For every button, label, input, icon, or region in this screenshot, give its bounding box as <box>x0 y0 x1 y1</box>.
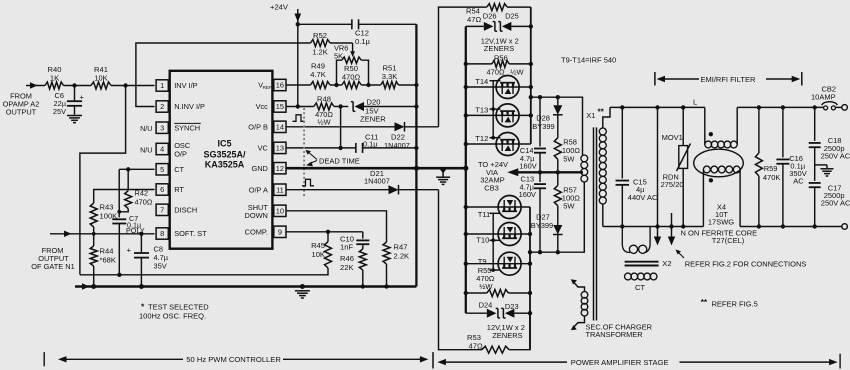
svg-text:MOV1: MOV1 <box>662 133 683 142</box>
varistor MOV1 <box>661 107 691 228</box>
svg-text:C12: C12 <box>355 29 369 38</box>
svg-text:11: 11 <box>276 185 284 194</box>
svg-text:10: 10 <box>276 207 284 216</box>
svg-text:4.7K: 4.7K <box>310 70 326 79</box>
label X2 <box>662 259 671 268</box>
resistor R58 <box>554 115 580 173</box>
pulse glyph O/P A <box>302 179 314 186</box>
svg-text:470K: 470K <box>763 173 781 182</box>
svg-text:POLY: POLY <box>126 226 145 235</box>
svg-text:SOFT. ST: SOFT. ST <box>174 229 207 238</box>
svg-text:R45: R45 <box>311 241 325 250</box>
resistor R40 <box>45 65 64 89</box>
IC IC5 SG3525A/KA3525A body <box>170 71 273 249</box>
capacitor C6 <box>53 86 85 117</box>
resistor R45 <box>311 232 331 268</box>
diode D27 <box>531 206 563 255</box>
capacitor C10 <box>340 235 369 252</box>
wire drain bus top <box>529 7 533 144</box>
svg-text:15: 15 <box>276 102 284 111</box>
svg-text:+: + <box>80 93 85 102</box>
svg-text:R59: R59 <box>764 164 778 173</box>
resistor R46 <box>340 244 366 288</box>
svg-text:TEST SELECTED: TEST SELECTED <box>148 303 209 312</box>
zener D26 <box>466 11 497 31</box>
potentiometer VR6 <box>334 44 369 86</box>
svg-text:100Hz OSC. FREQ.: 100Hz OSC. FREQ. <box>139 312 206 321</box>
pin 15 (Vcc) <box>256 101 286 112</box>
transistor T9 <box>466 252 530 275</box>
label N/U pin4 <box>140 145 152 154</box>
label 50 Hz PWM CONTROLLER <box>44 352 428 366</box>
pin 4 (OSC O/P) <box>156 141 191 158</box>
svg-text:N.INV I/P: N.INV I/P <box>174 102 205 111</box>
label DEAD TIME with arrows <box>306 150 360 167</box>
svg-text:½W: ½W <box>510 67 524 76</box>
svg-text:KA3525A: KA3525A <box>205 160 245 170</box>
wire drain top to primary <box>531 95 583 155</box>
winding SEC OF CHARGER TRANSFORMER <box>571 279 652 339</box>
label T9-T14=IRF 540 <box>561 55 616 64</box>
resistor R56 <box>466 53 533 76</box>
svg-text:DEAD TIME: DEAD TIME <box>319 157 360 166</box>
pin 12 (GND) <box>251 163 286 174</box>
svg-text:O/P B: O/P B <box>248 123 268 132</box>
svg-text:N/U: N/U <box>140 145 152 154</box>
svg-text:47Ω: 47Ω <box>467 15 481 24</box>
svg-text:T11: T11 <box>478 210 491 219</box>
resistor R48 <box>314 95 334 127</box>
svg-text:L: L <box>693 98 697 107</box>
svg-text:REFER FIG.5: REFER FIG.5 <box>712 300 758 309</box>
label test selected note <box>139 302 209 321</box>
svg-text:BY399: BY399 <box>532 122 555 131</box>
svg-text:T12: T12 <box>475 134 488 143</box>
wire neutral rail <box>603 224 842 228</box>
svg-text:9: 9 <box>278 228 282 237</box>
wire source bus left (thick) <box>463 26 468 313</box>
wire R53 to lower gate bus <box>509 313 530 350</box>
svg-text:10AMP: 10AMP <box>811 93 836 102</box>
wire gate drive B up <box>439 7 487 127</box>
svg-text:OUTPUT: OUTPUT <box>6 108 37 117</box>
pulse glyph O/P B <box>293 115 305 122</box>
diode D28 <box>532 97 562 131</box>
capacitor C11 <box>356 132 379 153</box>
svg-text:100K: 100K <box>100 212 118 221</box>
svg-text:35V: 35V <box>154 262 167 271</box>
svg-text:R43: R43 <box>100 203 114 212</box>
transformer X1 secondary winding <box>599 128 606 204</box>
svg-text:3: 3 <box>160 123 164 132</box>
zener D23 <box>501 302 530 318</box>
wire D20 junction down to C11 row <box>338 107 342 151</box>
svg-text:O/P A: O/P A <box>249 185 268 194</box>
svg-text:25V: 25V <box>53 107 66 116</box>
resistor R51 <box>381 64 399 89</box>
svg-text:12: 12 <box>276 164 284 173</box>
pin 11 (O/P A) <box>249 184 286 195</box>
svg-text:13: 13 <box>276 144 284 153</box>
pin 8 (SOFT. ST) <box>156 228 207 239</box>
svg-text:470Ω: 470Ω <box>135 198 153 207</box>
transformer X1 primary winding <box>581 155 588 182</box>
wire <box>384 264 388 289</box>
svg-text:R47: R47 <box>394 243 408 252</box>
svg-text:17SWG: 17SWG <box>708 218 734 227</box>
svg-text:160V: 160V <box>519 190 536 199</box>
svg-text:4: 4 <box>160 145 164 154</box>
svg-text:DOWN: DOWN <box>244 211 267 220</box>
svg-text:X1: X1 <box>586 111 595 120</box>
svg-text:440V AC: 440V AC <box>628 193 658 202</box>
svg-text:R44: R44 <box>100 247 114 256</box>
node +24V supply <box>270 3 301 109</box>
svg-text:CT: CT <box>174 165 184 174</box>
resistor R42 <box>117 169 152 213</box>
label N ON FERRITE CORE <box>681 228 758 245</box>
svg-text:**: ** <box>701 298 708 307</box>
svg-text:3.3K: 3.3K <box>382 72 398 81</box>
svg-text:5W: 5W <box>563 155 575 164</box>
svg-text:COMP.: COMP. <box>245 228 268 237</box>
wire <box>93 227 95 246</box>
wire pin11 row <box>286 189 439 191</box>
svg-text:T13: T13 <box>475 106 488 115</box>
wire gate bus top <box>491 81 495 140</box>
dead time dotted line <box>303 108 305 196</box>
wire gate drive A down to R53 <box>439 190 482 350</box>
wire pin9 row <box>286 230 363 239</box>
wire pin2 feedback to R52 <box>136 43 311 107</box>
wire GND row (thick) <box>286 166 466 171</box>
wire pin15 row <box>286 104 419 108</box>
svg-text:BY399: BY399 <box>531 221 554 230</box>
pin 5 (CT) <box>156 164 184 175</box>
svg-text:R46: R46 <box>340 254 354 263</box>
svg-text:1N4007: 1N4007 <box>364 177 390 186</box>
svg-text:0.1µ: 0.1µ <box>363 140 378 149</box>
svg-text:250V AC: 250V AC <box>821 151 850 160</box>
capacitor C8 <box>127 234 169 287</box>
svg-text:D23: D23 <box>505 302 519 311</box>
svg-text:50 Hz PWM CONTROLLER: 50 Hz PWM CONTROLLER <box>186 355 281 364</box>
svg-text:ZENERS: ZENERS <box>492 331 522 340</box>
svg-text:470Ω: 470Ω <box>342 73 361 82</box>
wire X2 line 2 <box>668 213 675 246</box>
svg-text:CT: CT <box>635 283 645 292</box>
svg-text:5K: 5K <box>334 52 343 61</box>
terminal output neutral <box>842 224 848 230</box>
svg-text:D24: D24 <box>479 301 493 310</box>
svg-text:SYNCH: SYNCH <box>174 123 200 132</box>
wire secondary bottom <box>602 204 604 227</box>
label REFER FIG.2 <box>676 250 807 269</box>
svg-text:275/20: 275/20 <box>661 180 684 189</box>
svg-text:ZENER: ZENER <box>360 114 386 123</box>
pin 9 (COMP.) <box>245 226 286 237</box>
wire pin10 row <box>286 211 387 242</box>
pin 10 (SHUT DOWN) <box>244 203 286 220</box>
wire live rail top <box>610 98 705 110</box>
wire drain bottom to primary <box>530 182 584 252</box>
svg-text:T14: T14 <box>475 77 488 86</box>
svg-text:IC5: IC5 <box>217 138 231 148</box>
label N/U pin3 <box>140 124 152 133</box>
svg-text:0.1µ: 0.1µ <box>355 37 371 46</box>
label POWER AMPLIFIER STAGE <box>433 352 840 368</box>
svg-text:10K: 10K <box>311 250 325 259</box>
svg-text:CB3: CB3 <box>484 183 499 192</box>
capacitor C14 <box>519 97 546 172</box>
svg-text:Vcc: Vcc <box>256 102 269 111</box>
resistor R55 <box>466 266 530 297</box>
resistor R49 <box>310 62 330 89</box>
label zeners bottom <box>487 323 525 340</box>
svg-text:½W: ½W <box>479 282 493 291</box>
capacitor C13 <box>519 172 546 254</box>
svg-text:X2: X2 <box>662 259 671 268</box>
inductor X4 common-mode choke <box>694 107 744 226</box>
svg-text:5W: 5W <box>563 202 575 211</box>
svg-text:250V AC: 250V AC <box>821 199 850 208</box>
svg-text:+24V: +24V <box>270 3 289 12</box>
resistor R41 <box>91 65 111 89</box>
node center tap TO +24V <box>478 160 583 192</box>
resistor R57 <box>554 172 580 210</box>
svg-text:ZENERS: ZENERS <box>484 44 514 53</box>
svg-text:1: 1 <box>160 81 164 90</box>
svg-text:INV I/P: INV I/P <box>174 81 197 90</box>
svg-text:6: 6 <box>160 185 164 194</box>
svg-text:EMI/RFI FILTER: EMI/RFI FILTER <box>701 75 756 84</box>
circuit breaker CB2 <box>811 85 842 110</box>
svg-text:N/U: N/U <box>140 124 152 133</box>
ground <box>295 291 310 298</box>
svg-text:D26: D26 <box>483 11 497 20</box>
svg-text:VC: VC <box>258 144 269 153</box>
svg-text:R52: R52 <box>313 31 327 40</box>
wire bottom rail (thick) <box>75 24 416 289</box>
label zeners top <box>481 36 519 53</box>
pin 16 (VREF) <box>258 79 286 90</box>
ground <box>815 147 834 176</box>
wire pin5 row <box>119 167 154 217</box>
resistor R52 <box>311 31 331 57</box>
transistor T10 <box>466 223 530 246</box>
diode D22 <box>384 122 410 150</box>
label EMI/RFI FILTER <box>655 72 802 86</box>
current transformer CT core <box>625 262 659 266</box>
svg-text:**: ** <box>598 108 605 117</box>
label REFER FIG.5 <box>701 298 758 309</box>
resistor R47 <box>383 242 409 264</box>
zener D24 <box>466 301 500 319</box>
svg-text:8: 8 <box>160 229 164 238</box>
svg-text:*68K: *68K <box>100 256 116 265</box>
pin 6 (RT) <box>156 184 184 195</box>
wire R52 to VR6 wiper <box>330 43 355 57</box>
svg-text:5: 5 <box>160 165 164 174</box>
svg-text:T10: T10 <box>476 236 489 245</box>
wire <box>93 266 95 287</box>
pin 7 (DISCH) <box>156 204 197 215</box>
wire X2 line 1 <box>654 107 661 245</box>
resistor R54 <box>466 4 531 24</box>
transistor T12 <box>466 133 531 156</box>
transistor T13 <box>466 104 531 127</box>
wire C12 top row <box>298 23 417 25</box>
transistor T14 <box>466 76 531 99</box>
pin 14 (O/P B) <box>248 121 286 132</box>
svg-text:1nF: 1nF <box>340 243 353 252</box>
svg-text:R48: R48 <box>317 95 331 104</box>
svg-text:OF GATE N1: OF GATE N1 <box>31 262 74 271</box>
svg-text:O/P: O/P <box>174 149 187 158</box>
svg-text:22K: 22K <box>340 263 354 272</box>
svg-text:14: 14 <box>276 123 284 132</box>
capacitor C17 <box>809 165 850 227</box>
wire ground row A <box>80 268 328 277</box>
wire <box>80 86 126 275</box>
svg-text:10K: 10K <box>94 74 108 83</box>
svg-text:AC: AC <box>793 176 804 185</box>
node FROM OUTPUT OF GATE N1 arrow <box>50 231 155 237</box>
svg-text:D25: D25 <box>505 12 519 21</box>
svg-text:POWER AMPLIFIER STAGE: POWER AMPLIFIER STAGE <box>571 358 669 367</box>
svg-text:1K: 1K <box>50 74 59 83</box>
svg-text:½W: ½W <box>317 117 330 126</box>
transformer X1 core <box>594 127 597 320</box>
capacitor C12 <box>352 19 371 46</box>
svg-text:SG3525A/: SG3525A/ <box>203 149 246 159</box>
pin 3 (SYNCH) <box>156 122 201 133</box>
svg-text:R56: R56 <box>494 53 508 62</box>
wire gate bus bottom <box>491 213 495 272</box>
wire pin14 row <box>286 126 439 128</box>
resistor R43 <box>90 203 117 228</box>
svg-text:GND: GND <box>251 164 267 173</box>
resistor R44 <box>90 246 116 266</box>
wire <box>64 83 92 87</box>
capacitor C7 <box>112 214 145 275</box>
svg-text:+: + <box>127 246 132 255</box>
capacitor C18 <box>809 107 850 160</box>
svg-text:TRANSFORMER: TRANSFORMER <box>586 330 643 339</box>
wire secondary top to rail <box>603 107 610 128</box>
terminal output live <box>842 105 848 111</box>
resistor R53 <box>467 333 509 353</box>
current transformer CT secondary <box>625 273 657 292</box>
wire live rail right <box>737 105 823 109</box>
current transformer CT primary loop <box>622 227 650 254</box>
transistor T11 <box>466 196 530 220</box>
svg-text:2.2K: 2.2K <box>394 252 410 261</box>
svg-text:1.2K: 1.2K <box>312 48 328 57</box>
svg-text:T27(CEL): T27(CEL) <box>712 236 745 245</box>
label X1** <box>586 108 604 121</box>
svg-text:2: 2 <box>160 102 164 111</box>
pin 2 (N.INV I/P) <box>156 101 205 112</box>
wire <box>111 83 155 87</box>
svg-text:REFER FIG.2 FOR CONNECTIONS: REFER FIG.2 FOR CONNECTIONS <box>685 260 807 269</box>
zener D25 <box>498 12 533 32</box>
svg-text:47Ω: 47Ω <box>469 342 483 351</box>
ground <box>436 170 450 185</box>
node FROM OPAMP A2 OUTPUT input arrow <box>3 82 45 116</box>
svg-text:16: 16 <box>276 81 284 90</box>
svg-text:REF: REF <box>263 85 272 90</box>
capacitor C16 <box>776 107 806 226</box>
zener D20 <box>351 98 386 124</box>
wire pin16 row <box>286 83 419 87</box>
svg-text:DISCH: DISCH <box>174 206 197 215</box>
svg-text:160V: 160V <box>519 161 536 170</box>
wire pin13 row <box>286 146 419 150</box>
resistor R50 <box>342 64 362 89</box>
wire pin6 row <box>94 190 155 204</box>
resistor R59 <box>755 107 780 226</box>
capacitor C15 <box>616 107 658 226</box>
svg-text:T9: T9 <box>478 257 487 266</box>
svg-text:RT: RT <box>174 185 184 194</box>
wire drain bus bottom <box>528 207 532 350</box>
pin 13 (VC) <box>258 142 286 153</box>
svg-text:T9-T14=IRF 540: T9-T14=IRF 540 <box>561 55 616 64</box>
ground <box>67 116 82 123</box>
svg-text:D20: D20 <box>367 98 381 107</box>
pin 1 (INV I/P) <box>156 80 198 91</box>
svg-text:470Ω: 470Ω <box>487 67 506 76</box>
diode D21 <box>364 169 399 195</box>
svg-text:7: 7 <box>160 206 164 215</box>
